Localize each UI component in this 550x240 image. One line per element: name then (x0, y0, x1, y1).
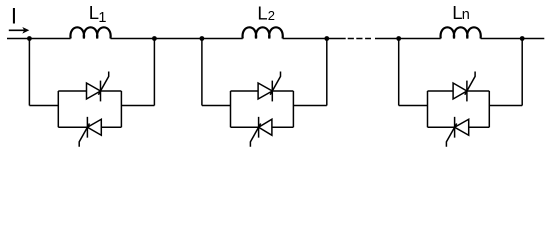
svg-text:2: 2 (268, 8, 275, 23)
svg-text:1: 1 (98, 10, 106, 26)
svg-text:n: n (462, 7, 470, 23)
svg-text:I: I (11, 4, 17, 29)
svg-text:L: L (257, 2, 267, 23)
